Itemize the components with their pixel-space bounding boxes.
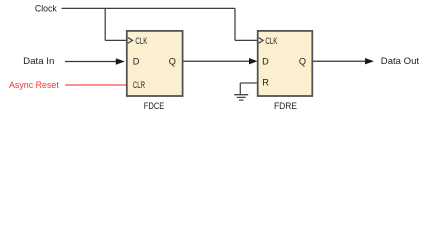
svg-text:FDRE: FDRE	[274, 100, 297, 111]
svg-text:CLR: CLR	[133, 80, 145, 90]
svg-text:Data In: Data In	[23, 56, 54, 66]
svg-text:Data Out: Data Out	[381, 56, 420, 66]
svg-text:Async Reset: Async Reset	[9, 80, 59, 90]
svg-text:D: D	[133, 57, 140, 67]
svg-text:Clock: Clock	[35, 4, 57, 14]
svg-text:Q: Q	[299, 57, 306, 67]
svg-text:FDCE: FDCE	[144, 100, 165, 111]
svg-text:CLK: CLK	[265, 36, 277, 46]
svg-text:D: D	[262, 57, 269, 67]
svg-text:CLK: CLK	[135, 36, 147, 46]
svg-text:R: R	[262, 78, 269, 88]
svg-text:Q: Q	[169, 57, 176, 67]
